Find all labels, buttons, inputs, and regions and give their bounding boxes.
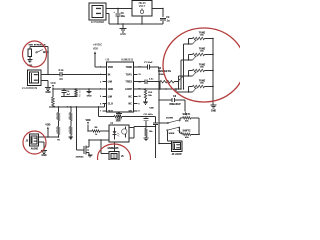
svg-text:J4 LOOP: J4 LOOP [171,153,182,156]
svg-text:VDD: VDD [93,47,98,50]
svg-text:.1u: .1u [166,20,170,23]
svg-text:R8 4k7: R8 4k7 [55,127,58,133]
svg-text:J2 POWER: J2 POWER [91,20,105,24]
svg-text:J5: J5 [121,156,124,158]
svg-text:LIM: LIM [108,95,112,98]
svg-text:4u7: 4u7 [67,93,71,96]
svg-text:BREAKUP: BREAKUP [169,103,181,106]
svg-text:GND: GND [108,88,114,91]
svg-text:TRES: TRES [125,81,132,84]
svg-text:NC: NC [128,95,132,98]
svg-text:C8: C8 [173,96,177,98]
svg-text:SHIFT1: SHIFT1 [183,114,192,116]
svg-text:13: 13 [138,74,141,76]
svg-text:40k: 40k [185,120,189,123]
svg-text:R4: R4 [158,67,162,70]
svg-text:7: 7 [100,111,102,113]
svg-text:FB: FB [129,110,132,113]
svg-text:40k: 40k [185,136,189,139]
svg-text:8: 8 [138,111,140,113]
svg-text:+9VDC: +9VDC [93,43,103,47]
svg-text:IN: IN [108,73,111,76]
svg-text:C2: C2 [166,16,170,19]
svg-text:CENTER Rv: CENTER Rv [158,71,172,73]
svg-text:VDD: VDD [85,119,90,122]
svg-text:R7 10k: R7 10k [67,113,69,120]
svg-text:C11 .047u: C11 .047u [144,113,154,116]
svg-text:DOWN: DOWN [166,118,173,120]
svg-text:J3: J3 [26,140,29,142]
svg-text:100k: 100k [115,120,121,122]
svg-text:GND: GND [87,96,92,98]
svg-text:AUDIO: AUDIO [31,148,39,151]
svg-text:R2 1M: R2 1M [50,98,52,104]
svg-text:3: 3 [100,81,102,83]
svg-text:R5 10k: R5 10k [78,91,80,98]
svg-text:20k: 20k [200,83,204,85]
svg-text:+: + [114,11,116,14]
svg-text:20k: 20k [200,67,204,69]
svg-text:56k: 56k [149,131,153,133]
svg-text:6: 6 [100,103,102,105]
svg-text:R12: R12 [116,113,121,115]
svg-text:20k: 20k [200,35,204,37]
svg-text:J1 AUDIO IN: J1 AUDIO IN [22,86,37,90]
svg-text:20k: 20k [200,51,204,53]
svg-text:R9 1k: R9 1k [67,127,69,133]
svg-text:GND: GND [41,155,46,157]
svg-text:R8: R8 [95,127,99,129]
svg-text:1k: 1k [95,134,98,136]
svg-text:2.2u: 2.2u [149,79,154,81]
svg-text:TOP1: TOP1 [126,73,133,76]
svg-text:2N7002: 2N7002 [76,157,84,159]
svg-text:CLO: CLO [108,103,113,106]
svg-text:LOOP: LOOP [125,88,132,91]
svg-text:NC: NC [128,103,132,106]
svg-text:NJM2011: NJM2011 [121,57,133,61]
svg-text:HSM2045: HSM2045 [108,147,119,150]
svg-text:C4: C4 [67,90,71,93]
svg-text:GND: GND [120,32,126,36]
svg-text:9: 9 [138,103,140,105]
svg-text:U3: U3 [110,122,114,125]
svg-text:R10: R10 [148,92,153,94]
svg-text:U2: U2 [106,57,110,61]
svg-text:GND: GND [149,107,154,109]
svg-text:VB: VB [57,140,60,142]
svg-text:10: 10 [138,96,141,98]
svg-text:VDD: VDD [45,124,50,127]
svg-text:20k: 20k [148,95,152,97]
svg-text:0.1u: 0.1u [59,69,64,72]
svg-text:GND: GND [211,109,217,112]
svg-text:R6 10k: R6 10k [55,113,57,120]
svg-text:LIM: LIM [108,81,112,84]
svg-text:5: 5 [100,96,102,98]
svg-text:OUT: OUT [108,110,114,113]
svg-text:SHIFT2: SHIFT2 [183,131,192,133]
svg-text:VDD: VDD [108,66,113,69]
svg-text:GND: GND [45,92,50,94]
svg-text:C7 10uF: C7 10uF [144,62,153,64]
svg-text:C3: C3 [59,78,63,81]
svg-text:VOLT: VOLT [139,5,146,8]
svg-text:10u: 10u [121,15,126,18]
svg-text:VDD: VDD [50,82,55,85]
svg-text:TON0: TON0 [125,66,132,69]
svg-text:WIDE: WIDE [169,133,175,135]
